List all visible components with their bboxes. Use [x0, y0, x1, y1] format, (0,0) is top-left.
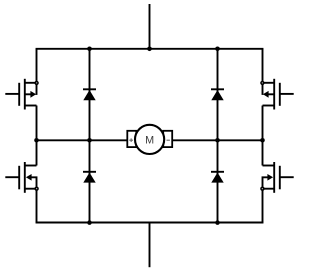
- wire left column upper (top rail to Q1 drain/body): [36, 49, 38, 95]
- node bottom rail / D2 junction: [87, 220, 92, 225]
- node top rail / D1 junction: [87, 47, 92, 52]
- wire Q3 source to middle rail: [262, 106, 264, 141]
- wire Q2 source to bottom rail: [36, 189, 38, 223]
- wire middle-left rail (node A to motor +): [37, 139, 128, 141]
- diode D4 (lower right): [211, 172, 224, 183]
- wire V+ supply stub: [149, 4, 151, 49]
- wire Q4 source to bottom rail: [262, 189, 264, 223]
- node A / D1-D2 junction: [87, 138, 92, 143]
- motor M1: [127, 125, 172, 154]
- wire ground stub: [149, 223, 151, 268]
- wire diode D2 branch: [89, 140, 91, 222]
- transistor Q1 (P-MOSFET top-left): [5, 79, 39, 110]
- diode D2 (lower left): [83, 172, 96, 183]
- wire diode D3 branch: [217, 49, 219, 141]
- wire Q1 source to middle rail: [36, 106, 38, 141]
- wire right column upper (top rail to Q3 drain/body): [262, 49, 264, 95]
- node bottom rail / D4 junction: [215, 220, 220, 225]
- node B (right mid rail) junction: [260, 138, 265, 143]
- node A (left mid rail) junction: [34, 138, 39, 143]
- wire Q4 drain from middle rail: [262, 140, 264, 165]
- node B / D3-D4 junction: [215, 138, 220, 143]
- wire middle-right rail (motor - to node B): [172, 139, 262, 141]
- svg-text:M: M: [145, 135, 154, 147]
- node V+ junction: [147, 47, 152, 52]
- wire diode D1 branch: [89, 49, 91, 141]
- transistor Q4 (N-MOSFET bottom-right): [260, 162, 294, 193]
- diode D1 (upper left): [83, 89, 96, 100]
- wire diode D4 branch: [217, 140, 219, 222]
- node top rail / D3 junction: [215, 47, 220, 52]
- wire top rail: [37, 47, 263, 50]
- diode D3 (upper right): [211, 89, 224, 100]
- wire Q2 drain from middle rail: [36, 140, 38, 165]
- transistor Q2 (N-MOSFET bottom-left): [5, 162, 39, 193]
- wire bottom rail: [37, 221, 263, 224]
- transistor Q3 (P-MOSFET top-right): [260, 79, 294, 110]
